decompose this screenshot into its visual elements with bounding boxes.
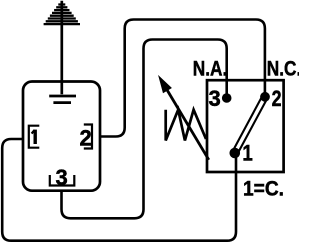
ground symbol inside box (49, 96, 76, 103)
antenna mast (60, 1, 63, 94)
pin 1 bracket (29, 126, 40, 148)
connector box J1 (left device) (23, 82, 100, 191)
svg-text:3: 3 (56, 165, 68, 190)
arrow head (159, 77, 171, 93)
pin 2 bracket (84, 125, 92, 149)
svg-text:N.A.: N.A. (193, 57, 228, 81)
antenna bars (44, 5, 80, 25)
svg-text:2: 2 (80, 126, 92, 151)
wire pin2 to N.C. terminal (outer top loop) (100, 20, 265, 137)
pin 1 label (32, 130, 36, 144)
svg-text:1=C.: 1=C. (243, 177, 284, 201)
svg-text:N.C.: N.C. (267, 57, 299, 81)
switch lever rod (235, 97, 265, 153)
terminal dot 1 (common) (230, 148, 241, 159)
arrow shaft (167, 89, 209, 160)
potentiometer zigzag (166, 110, 206, 141)
switch box (right, contacts) (207, 80, 284, 172)
svg-text:3: 3 (209, 86, 221, 111)
svg-text:1: 1 (242, 140, 252, 165)
pin 3 bracket (50, 175, 75, 186)
wire pin3 to N.A. terminal (inner loop) (62, 40, 227, 219)
svg-text:2: 2 (272, 86, 282, 111)
wire pin1 to common (bottom loop) (2, 139, 236, 241)
terminal dot 3 (N.A.) (222, 93, 232, 103)
terminal dot 2 (N.C.) (260, 92, 270, 102)
